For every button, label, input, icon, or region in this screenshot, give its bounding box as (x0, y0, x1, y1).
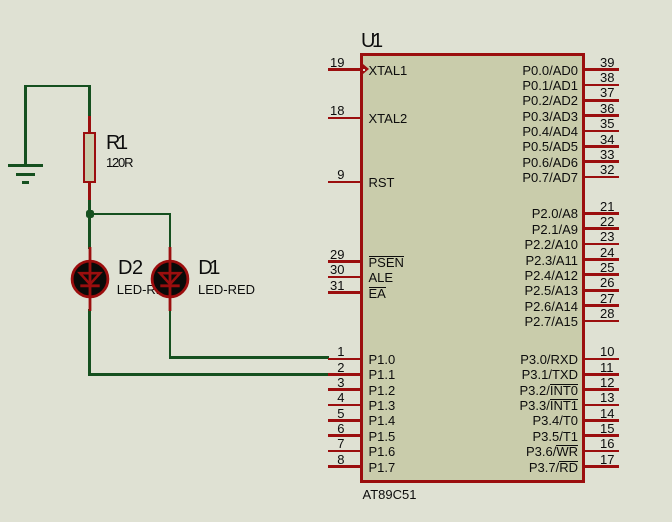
pin number 38 (600, 71, 644, 84)
label D1 (198, 258, 220, 278)
pin 16 P3.6/WR stub (584, 450, 619, 453)
IC U1 AT89C51 body (360, 53, 585, 483)
LED D2 (70, 247, 110, 311)
pin number 14 (600, 407, 644, 420)
pin number 28 (600, 307, 644, 320)
pin number 15 (600, 422, 644, 435)
pin 9 RST stub (328, 181, 362, 184)
pin 26 P2.5/A13 stub (584, 289, 619, 292)
pin name P2.7/A15 (450, 315, 578, 328)
pin name P1.3 (369, 399, 396, 412)
pin number 23 (600, 230, 644, 243)
pin 31 EA stub (328, 291, 362, 294)
ground (8, 164, 44, 167)
pin name P2.4/A12 (450, 269, 578, 282)
pin number 7 (300, 437, 345, 450)
pin 18 XTAL2 stub (328, 117, 362, 120)
pin name P0.3/AD3 (450, 110, 578, 123)
pin name P2.1/A9 (450, 223, 578, 236)
pin name P2.6/A14 (450, 300, 578, 313)
pin name P0.5/AD5 (450, 140, 578, 153)
pin 39 P0.0/AD0 stub (584, 68, 619, 71)
pin number 24 (600, 246, 644, 259)
pin 36 P0.3/AD3 stub (584, 114, 619, 117)
wire down to D1 (169, 214, 172, 249)
pin 32 P0.7/AD7 stub (584, 176, 619, 179)
pin number 25 (600, 261, 644, 274)
wire D2 to P1.1 (90, 373, 330, 376)
pin 29 PSEN stub (328, 260, 362, 263)
wire junction to D1 branch (90, 213, 172, 216)
clock arrow XTAL1 (363, 64, 369, 74)
pin name P1.2 (369, 384, 396, 397)
pin 30 ALE stub (328, 276, 362, 279)
pin 19 XTAL1 stub (328, 68, 362, 71)
pin name P1.6 (369, 445, 396, 458)
pin name RST (369, 176, 395, 189)
pin 23 P2.2/A10 stub (584, 243, 619, 246)
pin number 9 (300, 168, 345, 181)
wire top to R1 (88, 85, 91, 117)
pin name EA (369, 287, 386, 300)
pin 21 P2.0/A8 stub (584, 212, 619, 215)
pin number 30 (300, 263, 345, 276)
pin name P2.5/A13 (450, 284, 578, 297)
pin 2 P1.1 stub (328, 373, 362, 376)
pin 3 P1.2 stub (328, 388, 362, 391)
pin number 31 (300, 279, 345, 292)
wire D1 to P1.0 (170, 356, 329, 359)
pin number 35 (600, 117, 644, 130)
pin number 12 (600, 376, 644, 389)
pin 1 P1.0 stub (328, 358, 362, 361)
pin name P1.5 (369, 430, 396, 443)
pin number 2 (300, 361, 345, 374)
pin 27 P2.6/A14 stub (584, 304, 619, 307)
pin 8 P1.7 stub (328, 465, 362, 468)
pin 11 P3.1/TXD stub (584, 373, 619, 376)
pin number 22 (600, 215, 644, 228)
pin name P3.7/RD (450, 461, 578, 474)
pin 22 P2.1/A9 stub (584, 227, 619, 230)
value AT89C51 (363, 488, 417, 501)
pin name P0.2/AD2 (450, 94, 578, 107)
pin 12 P3.2/INT0 stub (584, 388, 619, 391)
pin name P0.4/AD4 (450, 125, 578, 138)
value D2 LED-RED (117, 283, 174, 296)
pin 15 P3.5/T1 stub (584, 434, 619, 437)
pin number 36 (600, 102, 644, 115)
pin name P1.1 (369, 368, 396, 381)
wire down to ground (24, 86, 27, 165)
pin number 19 (300, 56, 345, 69)
node junction (86, 210, 94, 218)
pin 28 P2.7/A15 stub (584, 320, 619, 323)
pin number 33 (600, 148, 644, 161)
pin name P1.7 (369, 461, 396, 474)
pin number 6 (300, 422, 345, 435)
label D2 (118, 258, 143, 278)
pin name P2.0/A8 (450, 207, 578, 220)
pin name P0.1/AD1 (450, 79, 578, 92)
pin 14 P3.4/T0 stub (584, 419, 619, 422)
LED D1 (150, 247, 190, 311)
value 120R (106, 156, 132, 169)
pin R1 top lead (88, 116, 91, 132)
pin name P3.5/T1 (450, 430, 578, 443)
pin 6 P1.5 stub (328, 434, 362, 437)
pin number 34 (600, 133, 644, 146)
pin number 3 (300, 376, 345, 389)
resistor R1 (83, 132, 97, 183)
wire D2 down (88, 309, 91, 376)
pin number 4 (300, 391, 345, 404)
pin number 13 (600, 391, 644, 404)
pin name P0.6/AD6 (450, 156, 578, 169)
pin name P0.7/AD7 (450, 171, 578, 184)
pin number 39 (600, 56, 644, 69)
pin 25 P2.4/A12 stub (584, 273, 619, 276)
pin 4 P1.3 stub (328, 404, 362, 407)
pin number 26 (600, 276, 644, 289)
pin name PSEN (369, 256, 404, 269)
pin number 27 (600, 292, 644, 305)
pin number 17 (600, 453, 644, 466)
pin number 18 (300, 104, 345, 117)
pin name P3.1/TXD (450, 368, 578, 381)
pin name P1.4 (369, 414, 396, 427)
pin name P3.2/INT0 (450, 384, 578, 397)
pin 33 P0.6/AD6 stub (584, 160, 619, 163)
pin name P3.4/T0 (450, 414, 578, 427)
pin 35 P0.4/AD4 stub (584, 130, 619, 133)
pin 24 P2.3/A11 stub (584, 258, 619, 261)
pin 7 P1.6 stub (328, 450, 362, 453)
pin name XTAL1 (369, 64, 408, 77)
pin name P2.3/A11 (450, 254, 578, 267)
pin number 10 (600, 345, 644, 358)
pin number 21 (600, 200, 644, 213)
pin number 16 (600, 437, 644, 450)
pin 38 P0.1/AD1 stub (584, 84, 619, 87)
pin number 32 (600, 163, 644, 176)
pin number 29 (300, 248, 345, 261)
pin 10 P3.0/RXD stub (584, 358, 619, 361)
pin number 8 (300, 453, 345, 466)
pin name P3.3/INT1 (450, 399, 578, 412)
pin 5 P1.4 stub (328, 419, 362, 422)
pin name P1.0 (369, 353, 396, 366)
wire VCC-top horizontal (24, 85, 91, 88)
pin name ALE (369, 271, 394, 284)
pin name P2.2/A10 (450, 238, 578, 251)
pin name P3.0/RXD (450, 353, 578, 366)
label U1 (361, 31, 383, 51)
pin R1 bottom lead (88, 183, 91, 201)
pin 17 P3.7/RD stub (584, 465, 619, 468)
pin name P0.0/AD0 (450, 64, 578, 77)
wire R1 to junction and down to D2 (88, 200, 91, 249)
pin name P3.6/WR (450, 445, 578, 458)
pin number 1 (300, 345, 345, 358)
pin number 11 (600, 361, 644, 374)
pin number 37 (600, 86, 644, 99)
label R1 (106, 133, 128, 153)
pin number 5 (300, 407, 345, 420)
value D1 LED-RED (198, 283, 255, 296)
pin 13 P3.3/INT1 stub (584, 404, 619, 407)
wire D1 down (169, 309, 172, 359)
pin name XTAL2 (369, 112, 408, 125)
pin 34 P0.5/AD5 stub (584, 145, 619, 148)
pin 37 P0.2/AD2 stub (584, 99, 619, 102)
